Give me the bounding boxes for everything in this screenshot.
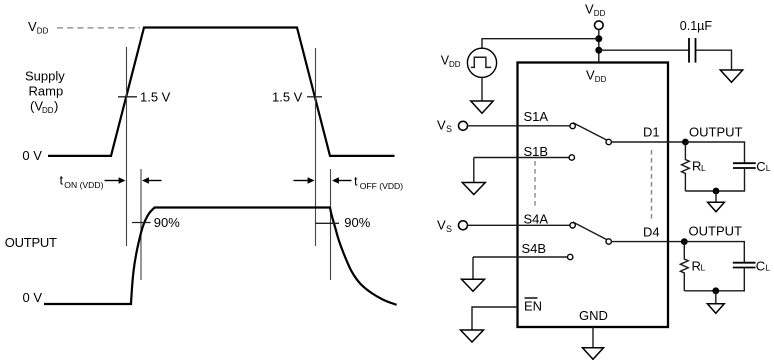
svg-text:S4A: S4A <box>524 212 549 227</box>
svg-text:V: V <box>28 19 37 34</box>
resistor RL (D1) <box>682 142 690 191</box>
label tON(VDD) <box>60 173 104 190</box>
wire D4 top to CL <box>684 242 744 263</box>
wire junction B to bypass cap <box>599 49 689 51</box>
svg-text:S1B: S1B <box>524 144 549 159</box>
wire junction A to pulse source <box>482 39 599 49</box>
wire GND pin <box>592 327 594 348</box>
90% tick left <box>132 222 151 224</box>
node load-1 ground junction <box>713 188 720 195</box>
pulse source VDD <box>467 48 496 77</box>
svg-text:DD: DD <box>37 27 49 36</box>
IC body <box>518 63 669 328</box>
wire S4B <box>473 256 568 258</box>
tOFF left arrow <box>294 177 315 183</box>
svg-text:C: C <box>756 159 765 174</box>
svg-text:V: V <box>586 68 595 83</box>
node load-4 ground junction <box>712 287 719 294</box>
switch S4 throw contact <box>606 239 611 244</box>
wire S4B to ground <box>472 257 474 279</box>
svg-text:D1: D1 <box>643 125 660 140</box>
label CL (D1) <box>756 159 771 174</box>
ground (S4B) <box>462 279 485 291</box>
1.5V tick left <box>118 96 137 98</box>
capacitor CL (D1) plates <box>733 163 756 168</box>
svg-text:V: V <box>437 218 446 233</box>
reference line at 90% of output fall <box>330 169 332 280</box>
svg-text:DD: DD <box>595 75 607 84</box>
svg-text:1.5 V: 1.5 V <box>140 90 171 105</box>
resistor RL (D4) <box>680 242 688 291</box>
label Supply Ramp (VDD) <box>25 69 65 116</box>
svg-text:S1A: S1A <box>524 109 549 124</box>
tON right arrow <box>142 177 162 183</box>
dashed line S channels <box>534 161 536 208</box>
switch S4 pole contact <box>570 223 575 228</box>
wire S1B <box>474 157 569 159</box>
svg-text:OFF (VDD): OFF (VDD) <box>360 181 404 191</box>
wire D4 <box>611 241 684 243</box>
svg-text:DD: DD <box>594 9 606 18</box>
dashed line D channels <box>651 150 653 220</box>
VS terminal circle top <box>459 121 468 130</box>
svg-text:Supply: Supply <box>25 69 65 84</box>
label VDD terminal (top) <box>585 2 606 19</box>
tON left arrow <box>105 177 126 183</box>
capacitor 0.1uF <box>689 38 696 63</box>
label tOFF(VDD) <box>354 174 403 191</box>
ground (pulse source) <box>471 101 493 113</box>
wire D1 <box>611 141 685 143</box>
label VS (top source) <box>437 118 452 135</box>
ground (bypass cap) <box>720 70 742 82</box>
pulse glyph <box>471 57 491 67</box>
svg-text:C: C <box>756 258 765 273</box>
switch S1 throw contact <box>606 139 611 144</box>
label RL (D4) <box>692 258 706 273</box>
wire CL bottom (D4) <box>684 268 744 291</box>
90% tick right <box>315 222 339 224</box>
ground (EN) <box>461 330 484 342</box>
node D1 junction <box>682 139 689 146</box>
svg-text:OUTPUT: OUTPUT <box>689 125 743 140</box>
svg-text:V: V <box>437 118 446 133</box>
tOFF right arrow <box>332 177 352 183</box>
svg-text:90%: 90% <box>154 215 180 230</box>
svg-text:DD: DD <box>449 60 461 69</box>
svg-text:1.5 V: 1.5 V <box>272 90 303 105</box>
svg-text:R: R <box>692 258 701 273</box>
switch S4 arm <box>573 222 609 241</box>
switch S1 pole contact <box>570 123 575 128</box>
label VDD (pulse source) <box>441 54 461 69</box>
svg-text:DD: DD <box>42 106 54 115</box>
capacitor CL (D4) plates <box>733 263 756 268</box>
label RL (D1) <box>692 159 706 174</box>
wire bypass cap to ground <box>696 50 732 70</box>
wire S1A <box>468 125 572 127</box>
reference line at 90% of output rise <box>140 169 142 280</box>
label VDD (supply high level) <box>28 19 49 36</box>
junction node A <box>595 35 602 42</box>
svg-text:S4B: S4B <box>522 241 547 256</box>
ground (S1B) <box>462 183 485 195</box>
label VS (bottom source) <box>437 218 452 235</box>
svg-text:0 V: 0 V <box>22 148 42 163</box>
svg-text:0.1µF: 0.1µF <box>680 19 713 33</box>
wire CL bottom (D1) <box>685 168 744 191</box>
ground (load 1) <box>708 202 725 212</box>
svg-text:90%: 90% <box>344 215 370 230</box>
output waveform <box>44 208 397 305</box>
wire to ground (load 4) <box>715 291 717 304</box>
label EN with overbar <box>524 298 542 314</box>
svg-text:S: S <box>446 124 452 134</box>
svg-text:L: L <box>701 163 706 173</box>
wire EN <box>472 307 518 330</box>
svg-text:ON (VDD): ON (VDD) <box>64 180 103 190</box>
svg-text:S: S <box>446 224 452 234</box>
wire pulse source to ground <box>481 77 483 101</box>
svg-text:OUTPUT: OUTPUT <box>5 235 57 250</box>
svg-text:V: V <box>585 2 594 17</box>
svg-text:OUTPUT: OUTPUT <box>689 224 743 239</box>
1.5V tick right <box>307 96 322 98</box>
label CL (D4) <box>756 258 771 273</box>
svg-text:): ) <box>54 99 58 114</box>
svg-text:0 V: 0 V <box>23 290 43 305</box>
S1B pin contact <box>569 155 574 160</box>
dashed VDD level line <box>57 27 140 29</box>
svg-text:GND: GND <box>579 308 608 323</box>
svg-text:D4: D4 <box>643 225 660 240</box>
svg-text:R: R <box>692 159 701 174</box>
switch S1 arm <box>573 123 609 141</box>
wire D1 top to CL <box>685 142 744 163</box>
wire to ground (load 1) <box>715 191 717 202</box>
reference line at 1.5V rising edge <box>126 47 128 246</box>
svg-text:Ramp: Ramp <box>29 84 64 99</box>
svg-text:L: L <box>701 263 706 273</box>
svg-text:EN: EN <box>524 299 542 314</box>
wire S4A <box>468 224 572 226</box>
ground (load 4) <box>707 304 724 314</box>
junction node B <box>595 47 602 54</box>
ground (GND pin) <box>583 348 604 360</box>
S4B pin contact <box>568 254 573 259</box>
reference line at 1.5V falling edge <box>315 48 317 246</box>
wire S1B to ground <box>473 158 475 183</box>
svg-text:t: t <box>60 173 64 188</box>
VDD terminal circle <box>595 21 604 30</box>
wire VDD terminal to box <box>598 30 600 63</box>
svg-text:L: L <box>765 263 770 273</box>
VS terminal circle bottom <box>459 221 468 230</box>
svg-text:L: L <box>766 163 771 173</box>
svg-text:t: t <box>354 174 358 189</box>
label VDD pin (inside box) <box>586 68 607 85</box>
node D4 junction <box>681 238 688 245</box>
supply ramp waveform <box>48 28 395 156</box>
